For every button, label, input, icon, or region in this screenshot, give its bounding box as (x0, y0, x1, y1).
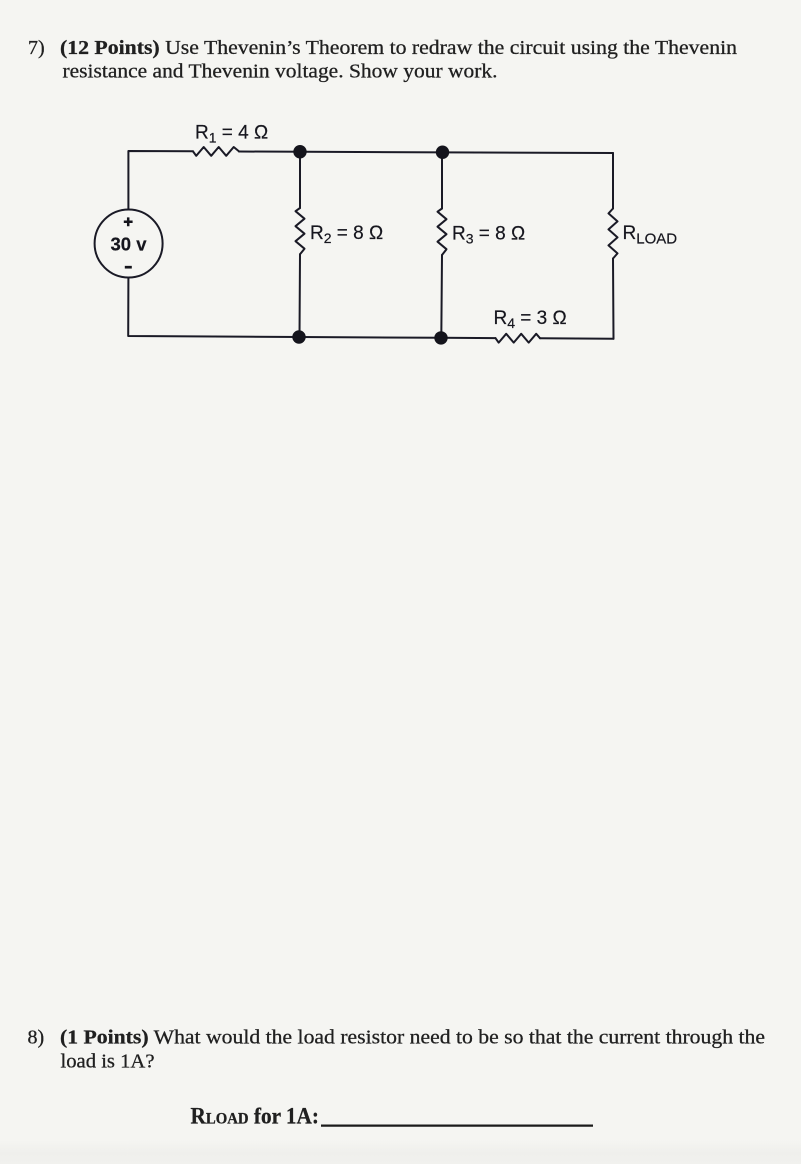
wire top from R1 to top-right corner (239, 152, 613, 154)
resistor R4 (496, 334, 541, 343)
resistor R3 (438, 209, 447, 256)
V1 plus sign (124, 217, 133, 226)
V1 minus sign (125, 266, 132, 269)
svg-text:8): 8) (28, 1027, 45, 1049)
svg-text:R2 = 8 Ω: R2 = 8 Ω (310, 223, 383, 246)
node A bottom junction dot (292, 330, 305, 343)
svg-text:30 v: 30 v (111, 234, 148, 255)
svg-text:(12 Points) Use Thevenin’s The: (12 Points) Use Thevenin’s Theorem to re… (60, 37, 737, 59)
node A top junction dot (293, 145, 306, 158)
svg-text:7): 7) (28, 37, 45, 59)
svg-text:R3 = 8 Ω: R3 = 8 Ω (452, 223, 525, 246)
svg-text:load is 1A?: load is 1A? (61, 1051, 155, 1073)
resistor R1 (193, 147, 239, 156)
svg-text:R4 = 3 Ω: R4 = 3 Ω (494, 308, 567, 331)
node B bottom junction dot (434, 331, 447, 344)
svg-text:R1 = 4 Ω: R1 = 4 Ω (195, 122, 268, 145)
answer blank line (321, 1124, 593, 1126)
wire bottom R4 to bottom-right corner (540, 337, 614, 339)
wire R2 branch top (299, 152, 301, 208)
wire R3 branch bottom (440, 255, 443, 338)
resistor R2 (296, 208, 305, 254)
wire R2 branch bottom (299, 254, 302, 337)
wire RLOAD branch top (612, 153, 614, 209)
svg-text:resistance and Thevenin voltag: resistance and Thevenin voltage. Show yo… (63, 61, 498, 83)
wire bottom node B to R4 (441, 337, 496, 339)
resistor RLOAD (609, 209, 618, 259)
wire bottom node A to node B (299, 336, 441, 339)
voltage source V1 circle (95, 210, 163, 278)
wire top-left from source to R1 (128, 151, 193, 210)
node B top junction dot (436, 146, 449, 159)
wire R3 branch top (441, 152, 443, 208)
svg-text:(1 Points) What would the load: (1 Points) What would the load resistor … (60, 1027, 765, 1049)
wire RLOAD branch bottom (612, 259, 615, 339)
wire left from source down to bottom-left corner then to node A (128, 278, 299, 338)
